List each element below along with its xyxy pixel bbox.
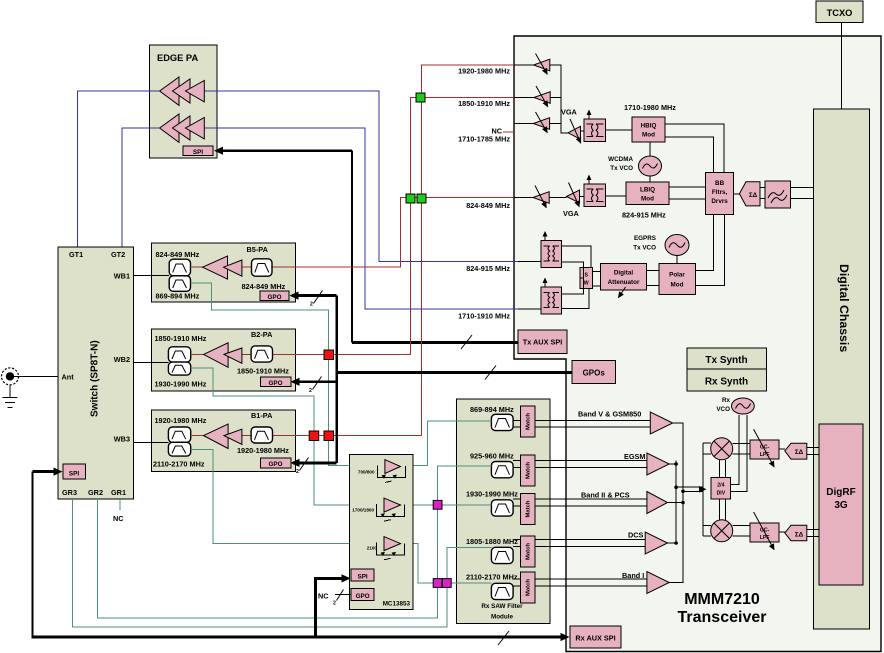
svg-text:869-894 MHz: 869-894 MHz [156,292,200,301]
wire B5 GPO [292,294,337,297]
svg-text:Rx: Rx [722,397,731,404]
svg-text:2110-2170 MHz: 2110-2170 MHz [153,460,205,469]
VGA2 high band driver [568,119,581,143]
GC-LPF Q [750,512,779,550]
svg-text:TCXO: TCXO [827,8,853,18]
svg-text:Tx Synth: Tx Synth [705,355,747,366]
svg-text:Polar: Polar [669,272,685,279]
arrowhead into EDGE SPI [214,147,223,155]
B5 PA amp [203,256,242,279]
svg-text:Mod: Mod [642,132,655,139]
crossover square green 3 [417,194,426,203]
svg-text:Tx AUX SPI: Tx AUX SPI [523,338,562,347]
svg-text:2100: 2100 [367,546,378,551]
svg-text:2: 2 [296,469,299,475]
crossover square red 1 [324,350,334,360]
NC stub MC GPO [335,594,351,596]
svg-text:GR3: GR3 [62,488,77,497]
B2 PA amp [204,343,242,368]
crossover square green 2 [406,194,415,203]
antenna switch SP8T [58,247,134,499]
svg-text:Match: Match [526,579,532,596]
MC13853 GPO box [351,588,374,600]
SAW filter 869-894 [491,414,513,430]
svg-text:2/4: 2/4 [717,483,724,489]
svg-text:EDGE PA: EDGE PA [157,53,198,63]
mixer Q [711,520,733,542]
svg-text:DigRF: DigRF [826,487,855,498]
svg-text:1700/1800: 1700/1800 [352,508,374,513]
B5 output filter [252,259,273,276]
svg-text:700/800: 700/800 [358,470,375,475]
svg-text:Tx VCO: Tx VCO [610,165,633,172]
red wire 1920 to B1 [296,65,515,436]
teal wire LNA3 out to SAW 2110 [401,544,492,583]
svg-text:925-960 MHz: 925-960 MHz [470,452,514,461]
slash GPOs bus [485,366,496,380]
LNA Band V [650,412,672,434]
match 2110-2170 [513,572,535,603]
svg-text:824-849 MHz: 824-849 MHz [466,201,510,210]
wires Polar Mod to BB [696,214,725,285]
wire B2 GPO [293,380,337,383]
wire balun to HBIQ [606,129,633,131]
svg-text:3G: 3G [834,500,848,511]
wires ADC I to DigRF [807,447,819,454]
svg-text:WCDMA: WCDMA [608,156,633,163]
slash Tx AUX bus [461,335,472,349]
Rx SAW Filter Module [457,399,550,623]
svg-text:DCS: DCS [628,531,644,540]
svg-text:DIV: DIV [717,491,726,497]
wires LBIQ to BB [669,187,706,199]
HBIQ Mod [632,117,665,142]
svg-text:Rx SAW Filter: Rx SAW Filter [481,603,523,610]
arrowhead into Rx AUX SPI [561,633,570,641]
teal wire GR3 to SAW 1805 [73,499,492,627]
wire WB2 [134,361,169,363]
wire VGA2 to balun low [580,196,584,198]
wire EDGE SPI to Tx AUX SPI [222,149,352,152]
SW switch box [580,268,593,289]
svg-text:WB3: WB3 [114,435,130,444]
SAW filter 925-960 [491,462,513,478]
EDGE PA block [150,45,218,158]
mixer I [711,438,733,460]
wires divider to mixer Q [720,499,726,520]
EDGE PA SPI box [183,146,213,156]
svg-text:LBIQ: LBIQ [640,187,655,194]
wires mixer Q to GC-LPF Q [733,526,751,537]
slash B1 GPO [300,458,309,471]
svg-text:SPI: SPI [193,149,203,156]
wires SW to DA [593,272,601,287]
B1 GPO box [260,458,291,468]
svg-text:1920-1980 MHz: 1920-1980 MHz [237,446,289,455]
VGA Q4 824 band [533,186,549,208]
branch to MC13853 SPI [316,578,345,637]
B1 output filter [251,427,272,443]
wires baluns to SW [562,246,592,309]
svg-text:Module: Module [491,614,514,621]
port NC 1710-1785 MHz [503,131,514,133]
crossover square magenta 3 [442,579,451,588]
slash B5 GPO [314,291,323,304]
svg-text:MC13853: MC13853 [383,601,411,608]
svg-text:GPO: GPO [268,294,282,301]
svg-text:Mod: Mod [671,282,684,289]
wires mixer I to divider [720,460,726,478]
TCXO oscillator [816,1,863,23]
wires HBIQ to BB filters [665,124,724,173]
svg-text:1930-1990 MHz: 1930-1990 MHz [466,490,518,499]
svg-text:GR2: GR2 [88,488,103,497]
svg-text:GPO: GPO [356,593,370,600]
svg-text:Digital: Digital [614,270,633,277]
sigma-delta ADC I [779,443,807,459]
teal wire B5 Rx to LNA 700/800 [191,283,385,465]
svg-text:WB1: WB1 [114,272,130,281]
Tx Synth [687,348,767,369]
balun low band Tx [584,175,606,207]
Digital Chassis [814,109,870,629]
svg-text:2: 2 [309,388,312,394]
GPOs box [572,360,615,383]
transceiver main box MMM7210 [514,36,881,652]
GC-LPF I [750,429,779,467]
EDGE PA amp chain 2 [160,114,205,142]
wire into switch SPI [33,470,54,473]
wires Rx VCO to divider [731,415,747,491]
match 1930-1990 [513,494,535,525]
wires match2 to LNA2 [535,461,647,468]
MC amp 700/800 [358,460,406,483]
svg-text:1805-1880 MHz: 1805-1880 MHz [466,537,518,546]
svg-text:B5-PA: B5-PA [247,245,269,254]
svg-text:Match: Match [526,543,532,560]
wire VGA outputs bus to VGA2 [550,65,568,133]
svg-text:1920-1980 MHz: 1920-1980 MHz [155,416,207,425]
B2 output filter [251,346,272,362]
svg-text:1850-1910 MHz: 1850-1910 MHz [155,334,207,343]
match 1805-1880 [513,536,535,567]
slash B2 GPO [313,377,322,390]
Rx VCO [716,397,754,414]
svg-text:GPOs: GPOs [583,369,606,378]
B2 Rx SAW filter [168,362,190,375]
svg-text:B2-PA: B2-PA [251,330,273,339]
SAW filter 1930-1990 [491,500,513,516]
svg-text:MMM7210: MMM7210 [684,591,760,608]
crossover square magenta 1 [433,500,442,509]
crossover square green 1 [416,93,425,102]
wires filter to chassis [790,187,813,198]
LNA Band II [647,492,668,514]
DigRF 3G block [819,424,863,585]
wire VGA2 to balun [581,130,584,132]
teal wire LNA2 out to SAW 1930 [401,504,492,506]
anti-alias filter Tx [760,181,790,208]
wire B1 GPO [293,461,337,464]
svg-text:2: 2 [310,302,313,308]
teal wire LNA1 out to SAW 869 [401,421,492,466]
svg-text:ΣΔ: ΣΔ [795,449,804,456]
red wire 1850 to B2 [296,98,515,355]
slash MC GPO [337,590,344,601]
B1 PA amp [204,424,242,449]
svg-text:1850-1910 MHz: 1850-1910 MHz [458,99,510,108]
svg-text:Transceiver: Transceiver [678,609,767,626]
svg-text:W: W [584,281,589,287]
wire WB1 [134,275,170,277]
balun GSM low band [541,231,562,268]
blue wire GT1 loop [78,91,518,262]
Rx Synth [687,369,767,391]
svg-text:Rx AUX SPI: Rx AUX SPI [575,634,615,643]
svg-text:ΣΔ: ΣΔ [795,532,804,539]
svg-text:1710-1910 MHz: 1710-1910 MHz [458,312,510,321]
wires mixer I to GC-LPF I [733,444,751,455]
sigma-delta ADC Q [779,525,807,541]
svg-text:Band II & PCS: Band II & PCS [581,491,630,500]
svg-text:1930-1990 MHz: 1930-1990 MHz [155,380,207,389]
wire to VGA2 low [549,197,566,199]
Tx AUX SPI box [518,330,567,354]
MC amp 1700/1800 [352,498,404,521]
svg-text:GPO: GPO [269,461,283,468]
svg-text:VCO: VCO [716,406,730,413]
svg-text:ΣΔ: ΣΔ [749,192,758,199]
LBIQ Mod [626,182,669,205]
WCDMA Tx VCO [608,142,661,182]
VGA Q3 1710 band [533,112,549,133]
blue wire GT2 loop [122,128,518,309]
SAW filter 2110-2170 [491,583,513,599]
svg-text:Fltrs,: Fltrs, [712,189,728,196]
svg-text:GPO: GPO [269,380,283,387]
svg-text:EGSM: EGSM [624,452,646,461]
LNA DCS [645,532,667,554]
svg-text:Switch (SP8T-N): Switch (SP8T-N) [90,340,101,417]
match 925-960 [513,455,535,486]
LNA Band I [647,572,669,594]
Digital Attenuator [601,263,647,297]
NC stub GR1 [119,499,121,510]
teal wire B2 Rx to LNA 1700/1800 [191,368,384,505]
arrow into mixer bus [699,486,707,493]
svg-text:GR1: GR1 [111,488,126,497]
svg-text:Band I: Band I [622,571,644,580]
sigma-delta DAC Tx [734,182,760,206]
teal wire B1 Rx to LNA 2100 [191,449,384,543]
svg-text:Digital Chassis: Digital Chassis [837,264,851,352]
wire balun to LBIQ [606,195,627,197]
B2 red line [191,353,296,355]
MC13853 SPI box [351,569,374,581]
svg-text:Tx VCO: Tx VCO [633,245,656,252]
svg-text:VGA: VGA [563,209,580,218]
wires match4 to LNA4 [535,540,645,547]
VGA Q1 1920 band [534,54,550,75]
svg-text:Ant: Ant [62,373,75,382]
wires ADC Q to DigRF [807,530,819,537]
switch SPI box [63,464,86,479]
svg-text:Match: Match [526,462,532,479]
B5 Rx SAW filter [169,276,190,292]
LNA EGSM [647,453,669,475]
bottom SPI bus [32,472,34,637]
svg-text:S: S [584,273,588,279]
svg-text:1850-1910 MHz: 1850-1910 MHz [237,367,289,376]
GPO bus vertical [335,296,338,463]
B5 Tx SAW filter [169,259,190,276]
wire TCXO to Digital Chassis [841,23,843,110]
ground [3,385,18,408]
LNA output bus wires [668,423,711,583]
wires match5 to LNA5 [535,579,647,586]
B1 red line [191,435,296,437]
svg-text:EGPRS: EGPRS [634,235,656,242]
svg-text:BB: BB [715,180,725,187]
BB Fltrs Drvrs block [706,173,734,215]
wires DA to Polar [647,271,659,286]
svg-text:Rx Synth: Rx Synth [705,377,748,388]
svg-text:1710-1980 MHz: 1710-1980 MHz [624,103,676,112]
svg-text:1710-1785 MHz: 1710-1785 MHz [458,135,510,144]
svg-text:Attenuator: Attenuator [608,279,640,286]
wire WB3 [134,442,169,444]
svg-text:824-915 MHz: 824-915 MHz [466,264,510,273]
svg-text:Mod: Mod [641,196,654,203]
svg-text:824-849 MHz: 824-849 MHz [156,250,200,259]
match 869-894 [513,406,535,437]
VGA Q2 1850 band [534,86,550,107]
svg-text:GT2: GT2 [111,250,125,259]
antenna connector [2,368,59,385]
divider 2/4 DIV [711,477,731,498]
crossover square magenta 2 [433,579,442,588]
svg-text:SPI: SPI [358,574,368,581]
balun GSM high band [541,278,562,315]
B2 Tx SAW filter [168,347,190,362]
MC amp 2100 [367,537,405,560]
svg-text:869-894 MHz: 869-894 MHz [470,405,514,414]
svg-text:WB2: WB2 [114,355,130,364]
B5 GPO box [260,291,289,301]
B1 Rx SAW filter [168,442,190,456]
svg-text:Match: Match [526,413,532,430]
wires match3 to LNA3 [535,499,647,506]
svg-text:1920-1980 MHz: 1920-1980 MHz [458,67,510,76]
slash Rx AUX bus [498,631,509,645]
svg-text:Drvrs: Drvrs [711,198,728,205]
svg-text:NC: NC [113,514,124,523]
svg-text:HBIQ: HBIQ [641,123,657,130]
Rx AUX SPI box [570,626,621,648]
B1 Tx SAW filter [168,427,190,442]
svg-text:NC: NC [318,592,329,601]
red wire 824 to B5 [296,198,515,268]
EDGE PA amp chain 1 [160,77,205,105]
port 1920-1980 MHz Tx [514,64,533,66]
svg-text:Match: Match [526,500,532,517]
balun high band [584,110,606,142]
junction dots LNA bus [674,462,678,466]
teal wire GR2 to SAW 925 [98,466,492,618]
wires match1 to LNA1 [535,420,651,427]
port 824-849 MHz Tx [514,197,533,199]
svg-text:2: 2 [333,601,336,607]
svg-text:824-915 MHz: 824-915 MHz [622,211,666,220]
B2 GPO box [260,377,291,387]
svg-text:SPI: SPI [69,471,79,478]
svg-text:824-849 MHz: 824-849 MHz [242,282,286,291]
svg-text:GT1: GT1 [69,250,83,259]
EGPRS Tx VCO [633,235,689,264]
svg-text:Band V & GSM850: Band V & GSM850 [578,410,641,419]
svg-text:B1-PA: B1-PA [251,411,273,420]
port 1850-1910 MHz Tx [514,97,534,99]
Polar Mod [659,263,696,294]
B5 red line [191,266,296,268]
crossover square red 3 [324,431,334,441]
svg-text:2110-2170 MHz: 2110-2170 MHz [466,573,518,582]
crossover square red 2 [309,431,319,441]
wire GPOs main [337,371,572,374]
VGA2 low band driver [567,183,580,207]
SAW filter 1805-1880 [491,547,513,563]
svg-text:VGA: VGA [561,108,578,117]
